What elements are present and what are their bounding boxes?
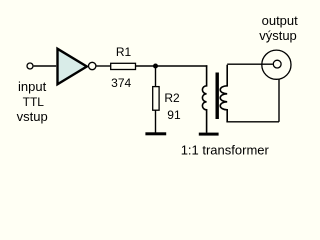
svg-text:output: output bbox=[262, 13, 299, 28]
svg-text:91: 91 bbox=[167, 108, 181, 122]
svg-text:374: 374 bbox=[111, 76, 131, 90]
wire input terminal to buffer bbox=[34, 65, 57, 67]
ground (R2) bbox=[145, 132, 166, 135]
wire up to output connector shield bbox=[278, 80, 280, 122]
transformer secondary winding bbox=[220, 65, 227, 122]
input terminal bbox=[27, 63, 33, 69]
svg-text:R2: R2 bbox=[164, 91, 180, 105]
svg-text:R1: R1 bbox=[116, 45, 132, 59]
transformer T1 primary winding bbox=[202, 65, 206, 133]
inverter bubble bbox=[89, 62, 96, 69]
wire secondary top to output bbox=[227, 63, 273, 65]
buffer U1 triangle bbox=[58, 49, 87, 85]
wire bubble to R1 bbox=[96, 65, 111, 67]
svg-text:1:1 transformer: 1:1 transformer bbox=[181, 143, 270, 158]
svg-text:input: input bbox=[18, 79, 47, 94]
output connector outer circle bbox=[262, 50, 291, 79]
node junction dot bbox=[153, 64, 158, 69]
ground (transformer) bbox=[199, 133, 219, 136]
wire secondary bottom bbox=[226, 121, 279, 123]
resistor R1 bbox=[111, 63, 136, 69]
wire node to R2 bbox=[155, 66, 157, 87]
resistor R2 bbox=[153, 87, 159, 111]
wire R2 to ground bbox=[155, 110, 157, 133]
svg-text:vstup: vstup bbox=[17, 109, 48, 124]
wire R1 to transformer bbox=[136, 65, 208, 67]
transformer core bbox=[216, 73, 219, 120]
svg-text:výstup: výstup bbox=[259, 28, 297, 43]
svg-text:TTL: TTL bbox=[23, 95, 45, 109]
output connector center pin bbox=[273, 60, 281, 68]
